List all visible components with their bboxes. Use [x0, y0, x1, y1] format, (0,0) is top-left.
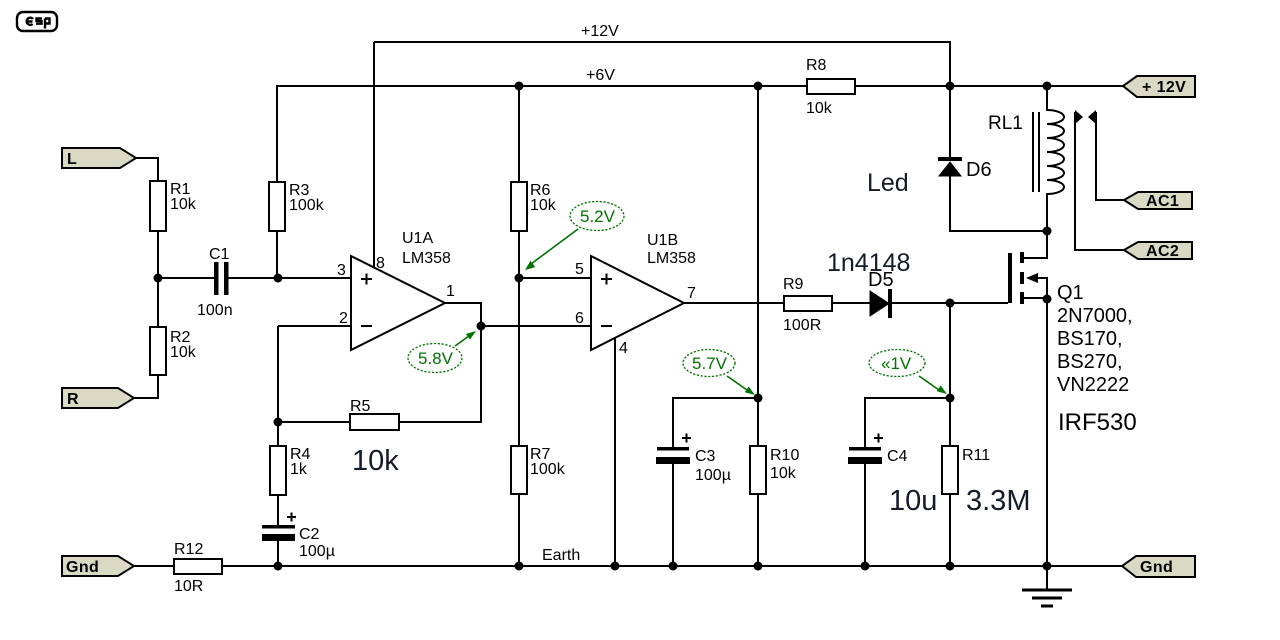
svg-text:1n4148: 1n4148 — [827, 249, 910, 277]
wire R4 top — [277, 422, 279, 446]
wire D6 bottom — [950, 176, 1047, 231]
wire R5 left — [278, 421, 350, 423]
wire L to R1 — [136, 158, 158, 181]
wire U1A output — [445, 303, 481, 326]
svg-text:R10: R10 — [770, 447, 799, 464]
ground symbol — [1022, 566, 1072, 606]
svg-text:AC1: AC1 — [1146, 193, 1179, 210]
wire Q1 source down — [1046, 299, 1048, 566]
svg-text:2: 2 — [339, 310, 348, 327]
annotation under 1V — [869, 350, 947, 395]
wire pin5 — [519, 277, 591, 279]
resistor R8 — [806, 57, 855, 117]
Q1 part labels — [1057, 282, 1133, 396]
svg-text:100µ: 100µ — [695, 467, 731, 484]
resistor R12 — [174, 541, 222, 595]
resistor R9 — [783, 276, 832, 334]
wire gate node column — [949, 303, 951, 398]
wire C3 branch — [673, 398, 758, 447]
svg-text:Gnd: Gnd — [1140, 559, 1173, 576]
op-amp U1B — [591, 232, 696, 350]
connector AC2 — [1124, 242, 1192, 260]
wire gate — [950, 302, 1008, 304]
connector L — [62, 148, 136, 168]
wire pin4 column — [614, 338, 616, 566]
svg-text:10k: 10k — [352, 445, 399, 477]
wire D5 to gate node — [892, 302, 950, 304]
svg-text:R8: R8 — [806, 57, 827, 74]
transistor Q1 — [1008, 231, 1047, 304]
svg-text:R11: R11 — [962, 447, 990, 464]
wire R6 bottom — [518, 231, 520, 278]
svg-text:10k: 10k — [806, 100, 833, 117]
wire R2 bottom to R tag — [134, 375, 158, 398]
resistor R2 — [150, 327, 197, 375]
svg-text:U1A: U1A — [402, 230, 433, 247]
wire C1 right — [228, 277, 278, 279]
wire R6 top — [518, 86, 520, 182]
svg-text:U1B: U1B — [647, 232, 678, 249]
wire U1B output to R9 — [684, 302, 784, 304]
svg-text:+12V: +12V — [581, 23, 619, 40]
relay RL1 coil — [988, 86, 1064, 231]
svg-text:4: 4 — [619, 340, 628, 357]
connector Gnd right — [1122, 556, 1195, 577]
svg-text:3.3M: 3.3M — [966, 485, 1030, 517]
svg-text:D6: D6 — [966, 159, 992, 181]
svg-text:1k: 1k — [290, 461, 308, 478]
wire feedback down — [399, 326, 481, 422]
svg-text:Q1: Q1 — [1057, 282, 1084, 304]
capacitor C1 — [197, 246, 233, 319]
resistor R6 — [511, 182, 557, 231]
connector Gnd left — [62, 556, 134, 576]
svg-text:LM358: LM358 — [402, 250, 451, 267]
wire C1 left — [158, 277, 214, 279]
svg-text:+6V: +6V — [586, 67, 615, 84]
wire R11 bottom — [949, 494, 951, 566]
resistor R3 — [269, 182, 325, 231]
svg-text:2N7000,: 2N7000, — [1057, 305, 1133, 327]
diode D5 — [868, 269, 894, 318]
annotation 5.8V — [408, 331, 476, 373]
resistor R10 — [750, 446, 799, 494]
svg-text:+ 12V: + 12V — [1142, 79, 1186, 96]
capacitor C4 — [848, 434, 908, 466]
svg-text:R9: R9 — [783, 276, 804, 293]
svg-text:R: R — [67, 391, 79, 408]
svg-text:1: 1 — [446, 283, 455, 300]
relay contact arrows — [1075, 110, 1096, 124]
svg-text:10k: 10k — [170, 344, 197, 361]
annotation 5.7V — [683, 350, 755, 396]
wire Gnd tag to R12 — [134, 565, 174, 567]
wire C2 bottom — [277, 541, 279, 566]
wire R10 top — [757, 398, 759, 446]
svg-text:6: 6 — [575, 310, 584, 327]
svg-text:100k: 100k — [530, 461, 566, 478]
wire R7 column — [518, 278, 520, 446]
svg-text:Led: Led — [867, 169, 909, 197]
svg-text:RL1: RL1 — [988, 113, 1023, 134]
wire D6 top — [949, 86, 951, 157]
wire +12V rail — [374, 42, 950, 86]
resistor R4 — [270, 446, 311, 495]
resistor R11 — [942, 446, 990, 494]
svg-text:5.7V: 5.7V — [692, 354, 728, 373]
svg-text:Earth: Earth — [542, 547, 580, 564]
svg-text:7: 7 — [687, 285, 696, 302]
svg-text:R5: R5 — [350, 398, 371, 415]
svg-text:Gnd: Gnd — [66, 559, 99, 576]
svg-text:100n: 100n — [197, 302, 233, 319]
wire R9 to D5 — [832, 302, 870, 304]
svg-text:IRF530: IRF530 — [1058, 409, 1137, 436]
op-amp U1A — [351, 230, 451, 350]
diode D6 — [938, 157, 992, 181]
wire R2 top — [157, 278, 159, 327]
svg-text:10k: 10k — [770, 465, 797, 482]
connector AC1 — [1124, 192, 1192, 210]
wire R4 to C2 — [277, 495, 279, 525]
svg-text:C2: C2 — [299, 526, 320, 543]
wire pin2 column — [277, 326, 279, 422]
wire earth rail — [222, 565, 1122, 567]
wire R11 top — [949, 398, 951, 446]
svg-text:R12: R12 — [174, 541, 203, 558]
svg-text:L: L — [67, 151, 77, 168]
wire R1 bottom — [157, 231, 159, 278]
resistor R1 — [150, 181, 197, 231]
svg-text:5: 5 — [575, 261, 584, 278]
annotation 5.2V — [525, 202, 624, 271]
svg-text:LM358: LM358 — [647, 250, 696, 267]
svg-text:3: 3 — [337, 262, 346, 279]
resistor R5 — [350, 398, 399, 430]
wire pin6 row — [481, 325, 591, 327]
wire R8 right to +12V tag — [855, 85, 1123, 87]
svg-text:C4: C4 — [887, 448, 908, 465]
wire contact to AC2 — [1075, 112, 1124, 250]
svg-text:10R: 10R — [174, 578, 203, 595]
svg-text:BS170,: BS170, — [1057, 328, 1123, 350]
wire pin3 — [278, 277, 351, 279]
svg-text:8: 8 — [376, 255, 385, 272]
svg-text:100µ: 100µ — [299, 543, 335, 560]
connector R — [62, 388, 134, 408]
connector +12V — [1123, 76, 1195, 97]
svg-text:10u: 10u — [889, 485, 937, 517]
svg-text:100k: 100k — [289, 197, 325, 214]
capacitor C2 — [262, 513, 335, 561]
svg-text:«1V: «1V — [881, 354, 912, 373]
wire +6V rail — [277, 86, 807, 182]
wire R7 bottom — [518, 494, 520, 566]
svg-text:VN2222: VN2222 — [1057, 374, 1129, 396]
wire R10 column — [757, 86, 759, 398]
esp logo — [17, 12, 57, 31]
wire C4 branch — [865, 398, 950, 447]
wire R3 bottom — [276, 231, 278, 278]
svg-text:10k: 10k — [170, 196, 197, 213]
svg-text:AC2: AC2 — [1146, 243, 1179, 260]
wire R10 bottom — [757, 494, 759, 566]
wire pin2 — [278, 325, 351, 327]
svg-text:C3: C3 — [695, 448, 716, 465]
wire pin8 column — [373, 42, 375, 268]
resistor R7 — [511, 446, 566, 494]
svg-text:BS270,: BS270, — [1057, 351, 1123, 373]
wire C4 bottom — [864, 464, 866, 566]
svg-text:5.8V: 5.8V — [418, 349, 454, 368]
wire contact to AC1 — [1096, 112, 1124, 200]
wire C3 bottom — [672, 464, 674, 566]
svg-text:C1: C1 — [209, 246, 230, 263]
svg-text:5.2V: 5.2V — [580, 207, 616, 226]
svg-text:10k: 10k — [530, 197, 557, 214]
svg-text:100R: 100R — [783, 317, 821, 334]
capacitor C3 — [656, 434, 731, 485]
